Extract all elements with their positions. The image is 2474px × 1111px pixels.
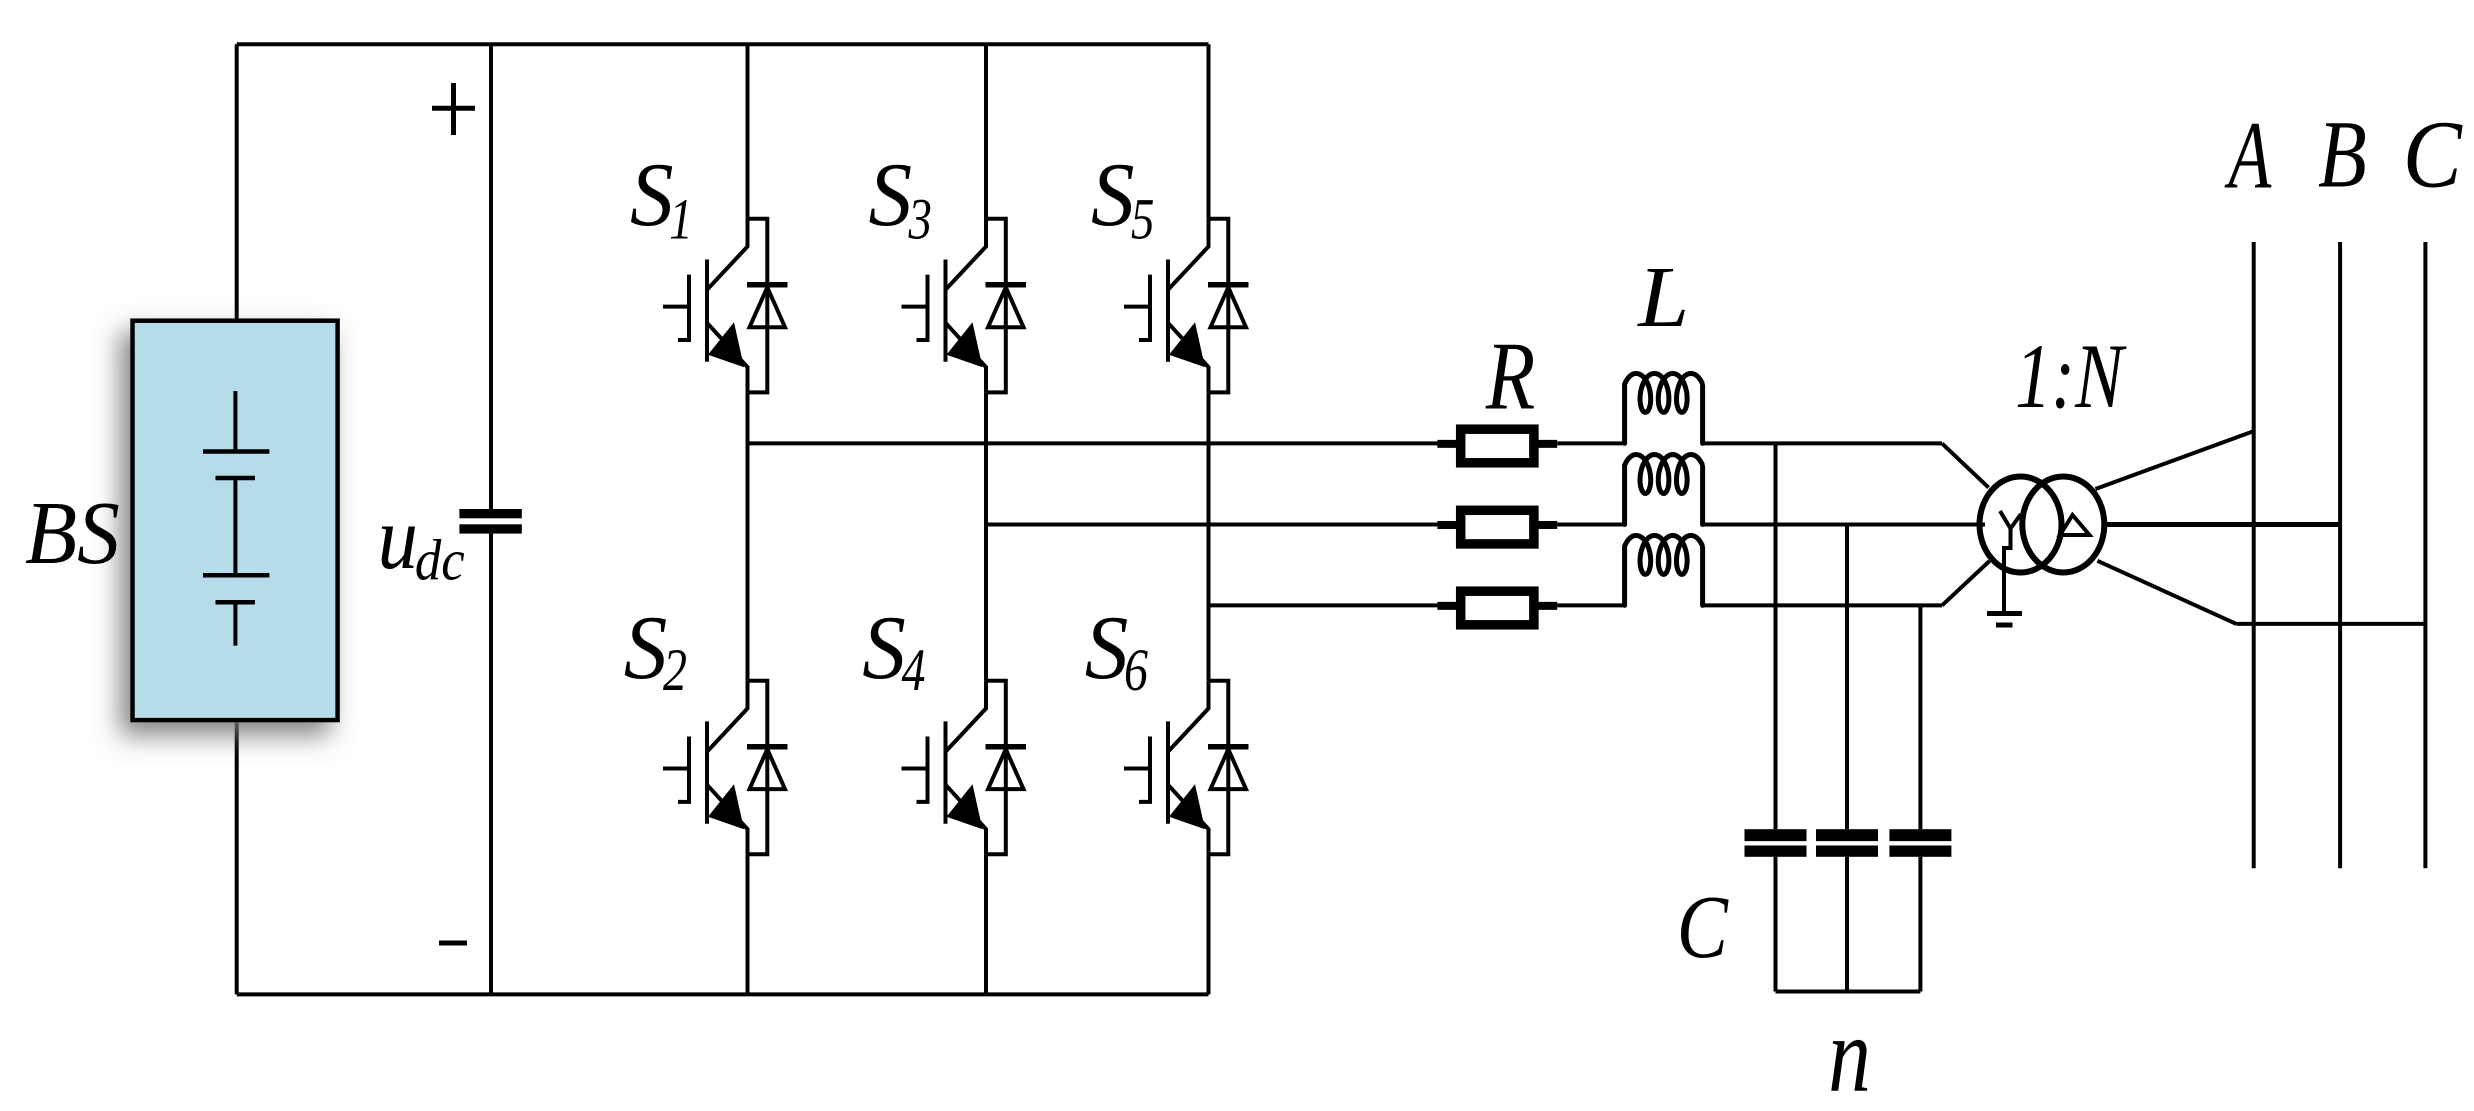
svg-text:C: C	[1677, 877, 1729, 977]
svg-text:4: 4	[902, 637, 926, 703]
wire: capacitor A to neutral	[1774, 857, 1778, 992]
svg-text:3: 3	[908, 188, 932, 252]
svg-text:A: A	[2224, 103, 2272, 209]
wire: DC-link capacitor upper lead	[489, 44, 493, 509]
transistor S3 (IGBT with antiparallel diode)	[902, 219, 1027, 393]
wire: capacitor C to neutral	[1918, 857, 1922, 992]
grid bus bar C	[2423, 242, 2427, 868]
wire: capacitor B to neutral	[1845, 857, 1849, 992]
svg-text:S: S	[869, 145, 913, 245]
resistor R phase A	[1437, 429, 1557, 463]
wire: bottom DC bus	[237, 992, 1209, 996]
wire: phase leg a upper (top bus to S1)	[746, 44, 750, 219]
wire: transformer to grid phase C diagonal	[2097, 561, 2236, 624]
resistor R phase B	[1437, 510, 1557, 544]
wire: phase C (L to transformer corner)	[1703, 603, 1942, 607]
wire: phase leg b upper (top bus to S3)	[984, 44, 988, 219]
transformer secondary delta symbol	[2060, 515, 2090, 535]
svg-text:2: 2	[663, 637, 687, 703]
wire: phase leg b lower (S4 to bottom bus)	[984, 854, 988, 994]
wire: phase B (L to transformer)	[1703, 523, 1985, 527]
wire: phase leg a middle (S1 to S2)	[746, 392, 750, 680]
transistor S2 (IGBT with antiparallel diode)	[663, 681, 788, 855]
wire: phase leg c lower (S6 to bottom bus)	[1207, 854, 1211, 994]
filter capacitor C phase A	[1745, 829, 1807, 857]
svg-text:1: 1	[669, 188, 692, 252]
wire: phase leg b middle (S3 to S4)	[984, 392, 988, 680]
inductor L phase B	[1625, 455, 1703, 525]
wire: filter capacitor leg phase A	[1774, 443, 1778, 829]
svg-text:B: B	[2318, 102, 2367, 209]
battery cell 2 short plate	[216, 600, 255, 605]
wire: battery negative lead (BS box to bottom bus)	[235, 720, 239, 994]
wire: phase leg c middle (S5 to S6)	[1207, 392, 1211, 680]
filter capacitor C phase B	[1816, 829, 1878, 857]
wire: phase C (R to L)	[1557, 603, 1624, 607]
transformer U1 primary winding circle	[1980, 477, 2062, 573]
wire: phase B output line	[986, 523, 1437, 527]
wire: DC-link capacitor lower lead	[489, 534, 493, 995]
wire: transformer to grid phase B	[2107, 522, 2340, 527]
DC-link capacitor udc plate bottom	[459, 524, 521, 533]
wire: phase C output line	[1209, 603, 1438, 607]
battery cell 2 bottom lead	[233, 602, 237, 645]
svg-text:1:N: 1:N	[2015, 324, 2127, 427]
grid bus bar A	[2252, 242, 2256, 868]
resistor R phase C	[1437, 591, 1557, 625]
wire: phase A (L to transformer corner)	[1703, 441, 1942, 445]
transistor S6 (IGBT with antiparallel diode)	[1124, 681, 1249, 855]
svg-text:BS: BS	[25, 484, 120, 584]
battery storage box BS	[133, 321, 338, 720]
wire: neutral bus n	[1776, 990, 1921, 994]
inductor L phase A	[1625, 373, 1703, 443]
inductor L phase C	[1625, 535, 1703, 605]
transistor S5 (IGBT with antiparallel diode)	[1124, 219, 1249, 393]
wire: phase B (R to L)	[1557, 523, 1624, 527]
transformer U1 secondary winding circle	[2022, 477, 2104, 573]
transformer neutral ground bar 2	[1996, 623, 2013, 628]
wire: battery positive lead (top bus to BS box)	[235, 44, 239, 320]
wire: phase C diagonal into transformer	[1942, 561, 1990, 605]
transformer primary wye symbol	[2000, 511, 2021, 612]
transistor S1 (IGBT with antiparallel diode)	[663, 219, 788, 393]
svg-text:R: R	[1485, 323, 1535, 431]
wire: phase A output line	[748, 441, 1438, 445]
svg-text:u: u	[378, 489, 418, 588]
svg-text:6: 6	[1124, 637, 1148, 703]
wire: phase A diagonal into transformer	[1942, 443, 1989, 487]
battery cell 1 long plate	[203, 449, 269, 454]
svg-text:5: 5	[1131, 188, 1154, 252]
wire: transformer to grid phase A diagonal	[2096, 431, 2254, 489]
battery cell 2 long plate	[203, 573, 269, 578]
wire: phase A (R to L)	[1557, 441, 1624, 445]
battery cell 1 short plate	[216, 476, 255, 481]
svg-text:S: S	[862, 598, 906, 698]
minus sign (DC bus polarity)	[439, 941, 467, 946]
transformer neutral ground bar 1	[1987, 611, 2022, 616]
wire: filter capacitor leg phase C	[1918, 605, 1922, 829]
filter capacitor C phase C	[1889, 829, 1951, 857]
svg-text:C: C	[2403, 101, 2463, 207]
wire: phase leg c upper (top bus to S5)	[1207, 44, 1211, 219]
battery middle lead	[233, 478, 237, 575]
wire: phase leg a lower (S2 to bottom bus)	[746, 854, 750, 994]
wire: filter capacitor leg phase B	[1845, 525, 1849, 830]
svg-text:S: S	[1091, 145, 1135, 245]
grid bus bar B	[2338, 242, 2342, 868]
svg-text:S: S	[1085, 598, 1129, 698]
DC-link capacitor udc plate top	[459, 509, 521, 518]
svg-text:L: L	[1636, 250, 1689, 345]
wire: grid phase C horizontal	[2236, 622, 2425, 626]
svg-text:n: n	[1828, 995, 1871, 1111]
transistor S4 (IGBT with antiparallel diode)	[902, 681, 1027, 855]
plus sign (DC bus polarity)	[432, 83, 475, 135]
svg-text:S: S	[630, 145, 674, 245]
svg-text:S: S	[624, 598, 668, 698]
battery cell 1 top lead	[233, 391, 237, 452]
svg-text:dc: dc	[415, 528, 465, 592]
wire: top DC bus	[237, 42, 1209, 46]
